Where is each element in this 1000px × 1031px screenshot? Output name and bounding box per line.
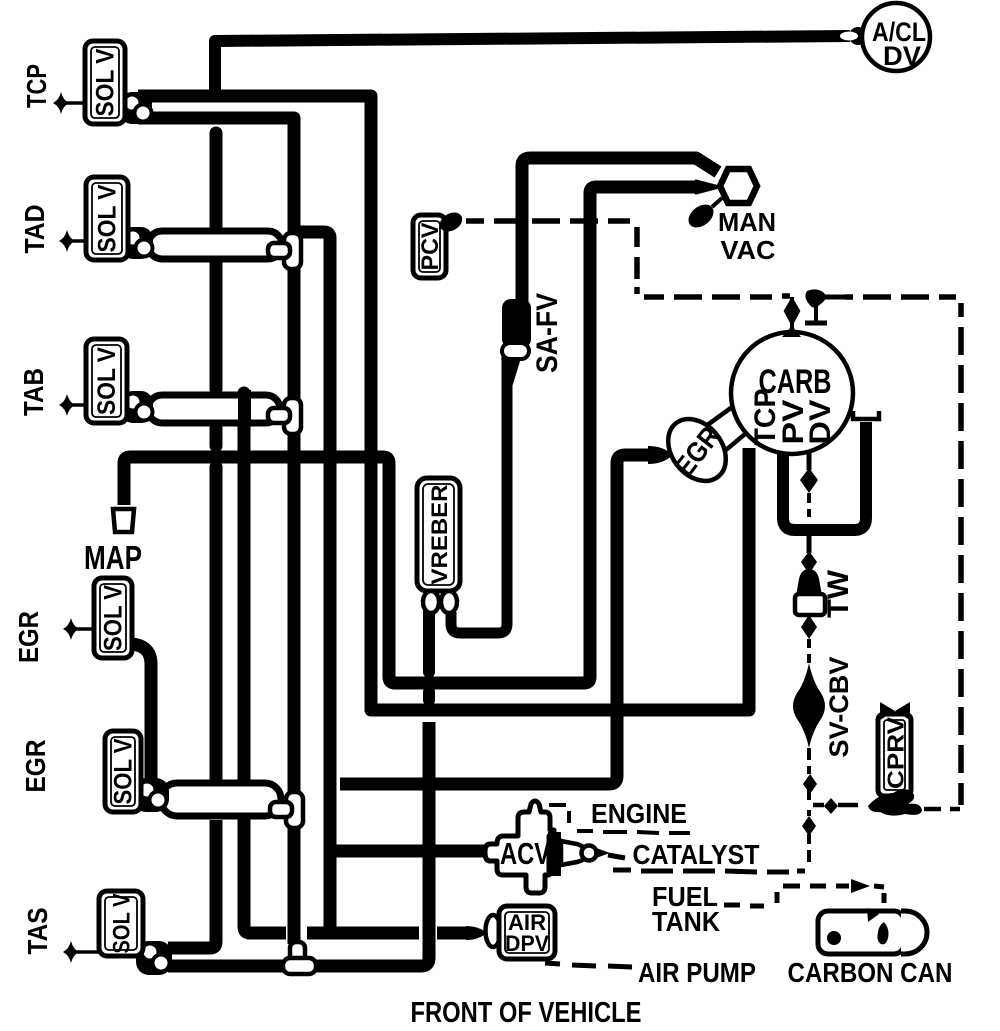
node EGR1 electrical star (63, 618, 94, 640)
wire CARB port loop U-hose to capped stub (783, 422, 866, 530)
solenoid TAB box SOL V (86, 339, 127, 423)
component VRESER reservoir box (417, 478, 460, 591)
wire TCP top hose to CARB bottom port via y=712 run (138, 96, 749, 710)
component fuel tank arrow (851, 879, 870, 893)
wire SV-CBV dash-dot down (807, 748, 811, 862)
component small check diamond 2 (802, 816, 816, 836)
component manifold vent symbol (805, 289, 845, 323)
component A/CL DV circle (862, 3, 930, 71)
wire VRESER left nipple down segment 1 (423, 612, 435, 672)
svg-text:TANK: TANK (652, 906, 720, 937)
svg-text:MAN: MAN (718, 207, 776, 237)
svg-text:PCV: PCV (417, 223, 444, 271)
node TAS electrical star (63, 941, 99, 963)
svg-text:SV-CBV: SV-CBV (824, 657, 854, 758)
solenoid TCP ports (120, 92, 152, 124)
svg-text:SOL V: SOL V (94, 184, 122, 252)
wire vertical bus x=216 segment 4 (210, 467, 223, 778)
node TCP electrical star (53, 92, 85, 114)
wire TAB branch x=244 lower, corner to AIR DPV run (244, 819, 286, 933)
component EGR valve neck (706, 402, 757, 450)
wire MAP to MAN VAC long route (124, 187, 698, 683)
component AIR DPV box (499, 906, 555, 959)
capsule hose TAB solenoid (148, 395, 280, 423)
svg-text:DV: DV (804, 400, 837, 445)
wire PCV dashed route to dashed box (466, 221, 961, 805)
svg-text:VREBER: VREBER (427, 484, 452, 584)
component CPRV top bowtie (880, 702, 910, 720)
svg-text:SOL V: SOL V (110, 738, 138, 804)
component AIR DPV nipple (486, 915, 501, 947)
svg-text:CARBON CAN: CARBON CAN (788, 957, 953, 988)
svg-text:MAP: MAP (84, 539, 142, 576)
svg-text:TAS: TAS (22, 908, 53, 955)
wire VRESER left nipple down segment 2 (423, 692, 435, 700)
component CARB DV port check valve diamond (800, 452, 818, 517)
solenoid TAS box SOL V (99, 891, 143, 956)
wire EGR1 solenoid hose down to EGR2 ports (132, 644, 151, 782)
component TW thermal vent chain (795, 536, 825, 663)
wire VRESER line down to TAS hose corner (168, 722, 429, 966)
component MAN VAC teardrop (684, 198, 722, 232)
svg-text:AIR PUMP: AIR PUMP (638, 957, 756, 988)
component VRESER nipples (423, 591, 439, 613)
wire SA-FV outlet down and left to VRESER right nipple (451, 356, 507, 633)
svg-text:TCP: TCP (21, 64, 52, 108)
wire TCP bottom hose / solenoid vent bus x=294 (138, 118, 294, 944)
svg-text:FRONT OF VEHICLE: FRONT OF VEHICLE (411, 997, 642, 1029)
component MAN VAC hose tapers (696, 181, 719, 193)
svg-text:SOL V: SOL V (93, 347, 121, 415)
component A/CL DV nipple (849, 27, 867, 45)
svg-text:ACV: ACV (500, 836, 550, 871)
tee fitting TAS (283, 942, 316, 974)
component capped stub end (853, 411, 879, 419)
wire AIR PUMP dashed (545, 963, 632, 967)
component canister inlet arrow (867, 908, 879, 922)
capsule hose TAD solenoid (148, 231, 282, 259)
svg-text:DPV: DPV (505, 931, 549, 956)
node TAB electrical star (59, 394, 86, 416)
wire vertical bus x=216 segment 2 (210, 263, 223, 389)
component ACV outlet funnel (548, 832, 561, 876)
component CPRV bottom flower (868, 789, 922, 815)
solenoid TAB ports (121, 391, 153, 423)
svg-text:TW: TW (822, 569, 855, 618)
wire vertical bus x=216 bulb segment (210, 428, 223, 446)
component SV-CBV lens valve (793, 663, 825, 748)
component CPRV box (878, 714, 911, 796)
component small check diamond on CPRV branch (824, 798, 838, 814)
solenoid TAS ports (136, 941, 172, 975)
svg-text:CPRV: CPRV (883, 716, 909, 789)
tee fitting TAD (268, 233, 301, 269)
wire CPRV dashed branch (813, 805, 960, 809)
wire CATALYST dashed connector (608, 855, 805, 872)
solenoid EGR2 ports (133, 778, 169, 812)
component carbon canister body (818, 911, 927, 954)
wire FUEL TANK dashed route (724, 886, 884, 906)
svg-text:SOL V: SOL V (109, 894, 136, 954)
solenoid TCP box SOL V (85, 41, 125, 124)
wire TAB branch top tee overlay (238, 390, 251, 426)
component PCV box (413, 215, 446, 278)
component EGR valve oval (656, 408, 737, 492)
svg-text:VAC: VAC (721, 235, 776, 265)
component EGR valve teardrop (648, 446, 671, 464)
wire MAN VAC upper hose to SA-FV (522, 158, 718, 303)
wire ENGINE dashed bracket (549, 805, 690, 833)
solenoid TAD ports (121, 227, 153, 259)
component SA-FV filter body (501, 299, 531, 387)
component ACV valve body (485, 801, 554, 893)
svg-text:ENGINE: ENGINE (591, 798, 687, 829)
wire vertical bus x=216 lower segment to TAS top port (168, 820, 216, 948)
component CARB top nipple and check valve diamond (782, 297, 801, 337)
capsule hose EGR2 solenoid (161, 783, 281, 816)
wire A/CL DV supply line from node at x=215 (215, 36, 850, 96)
component small check diamond 1 (803, 774, 817, 794)
solenoid EGR2 box SOL V (105, 731, 141, 812)
component MAN VAC hexagon (720, 169, 757, 203)
solenoid EGR1 box SOL V (94, 578, 132, 658)
wire AIR DPV run y=933 right segment to teardrop (437, 927, 470, 940)
component AIR DPV teardrop (466, 926, 486, 940)
wire AIR DPV run y=933 mid segment (307, 927, 419, 940)
svg-text:TAB: TAB (18, 368, 49, 416)
svg-text:EGR: EGR (13, 611, 44, 663)
wire TAB branch x=244 upper (238, 393, 251, 779)
component CARB circle (731, 332, 853, 454)
svg-text:DV: DV (883, 41, 921, 71)
tee fitting EGR2 (270, 792, 303, 828)
svg-text:SOL V: SOL V (92, 48, 120, 116)
svg-text:TAD: TAD (19, 205, 50, 254)
svg-text:EGR: EGR (20, 740, 51, 793)
svg-text:SOL V: SOL V (100, 585, 128, 651)
wire ACV branch from x=330 (330, 845, 492, 858)
wire vertical bus x=216 upper segment (210, 133, 223, 226)
svg-text:SA-FV: SA-FV (531, 293, 564, 373)
wire EGR valve feed: y=784 run up x=615 to EGR oval (340, 455, 650, 784)
node TAD electrical star (59, 230, 86, 252)
component PCV nipple teardrop (436, 209, 465, 236)
wire TAD junction branch x=330 down to AIR DPV run (298, 232, 330, 933)
solenoid TAD box SOL V (86, 177, 128, 260)
component MAP nipple (113, 509, 134, 532)
svg-text:CATALYST: CATALYST (633, 839, 760, 870)
tee fitting TAB (268, 398, 301, 434)
